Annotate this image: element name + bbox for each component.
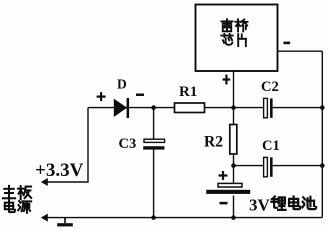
capacitor C1 — [264, 157, 273, 176]
wire C1 horizontal right segment to right rail — [273, 165, 323, 167]
chip label line1 nan qiao — [221, 19, 247, 31]
junction node right rail at main wire — [320, 105, 325, 110]
wire bottom ground bus — [46, 217, 322, 219]
capacitor C2 — [264, 98, 273, 117]
junction node R1 right / chip plus / R2 top — [231, 105, 236, 110]
diode cathode minus label — [136, 94, 144, 97]
wire C3 branch lower — [153, 150, 155, 218]
wire left vertical drop to +3.3V arrow — [46, 108, 89, 182]
svg-text:3V: 3V — [249, 196, 271, 215]
resistor R1 — [175, 103, 205, 113]
svg-text:R2: R2 — [204, 134, 223, 151]
wire main horizontal net from +3.3V corner to C2 left plate — [88, 107, 264, 109]
ground — [57, 218, 73, 227]
junction node at diode cathode / C3 top — [151, 105, 156, 110]
svg-text:R1: R1 — [179, 84, 197, 100]
wire battery minus down to ground bus — [233, 196, 235, 218]
svg-text:C3: C3 — [119, 136, 137, 152]
wire chip plus pin down through R1 node to R2 — [233, 71, 235, 125]
chip plus pin label — [223, 75, 231, 85]
node motherboard power label zhu ban — [3, 186, 31, 199]
diode anode plus label — [97, 92, 106, 101]
wire chip minus output to right rail — [278, 50, 322, 52]
diode D — [114, 98, 129, 118]
chip label line2 xin pian — [221, 34, 246, 46]
wire main horizontal net from C2 right plate to right rail — [273, 107, 323, 109]
battery plus label — [219, 171, 228, 180]
junction node C3 bottom on ground bus — [151, 215, 156, 220]
junction node R2 bottom / C1 left — [231, 163, 236, 168]
resistor R2 — [230, 125, 237, 155]
wire R2 bottom to battery plus — [233, 154, 235, 184]
arrow to motherboard ground — [41, 214, 48, 222]
svg-text:C2: C2 — [261, 79, 279, 95]
junction node right rail at C1 wire — [320, 163, 325, 168]
wire C3 branch upper — [153, 108, 155, 139]
chip minus pin label — [284, 42, 291, 45]
svg-text:C1: C1 — [262, 138, 280, 154]
svg-text:D: D — [117, 77, 127, 92]
arrow to motherboard +3.3V — [41, 178, 48, 186]
wire right vertical rail — [321, 51, 323, 217]
battery BT1 3V lithium — [206, 183, 250, 194]
battery value label li dian chi — [271, 196, 316, 209]
capacitor C3 — [143, 139, 164, 149]
south bridge chip U1 box — [196, 5, 278, 72]
wire C1 horizontal left segment — [234, 165, 264, 167]
battery minus label — [220, 202, 228, 205]
node motherboard power label dian yuan — [5, 200, 31, 212]
svg-text:+3.3V: +3.3V — [35, 160, 84, 181]
junction node battery minus on ground bus — [231, 215, 236, 220]
